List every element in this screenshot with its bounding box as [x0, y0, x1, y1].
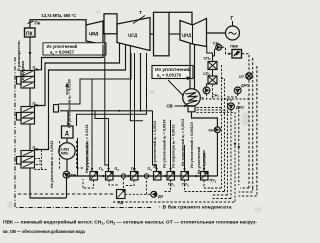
- node: junction circle 2 on condensate line: [144, 174, 148, 178]
- LP cylinder CND double-flow: [180, 19, 207, 47]
- crossover box A between CVD and CSD: [104, 14, 117, 34]
- svg-text:ОВ: ОВ: [167, 104, 173, 109]
- wire: condensate from hotwell to pump KN: [192, 112, 218, 127]
- wire: extraction 2 CSD to heater P6: [35, 43, 120, 107]
- dashed network water line SN2 to PVK to OT: [222, 47, 249, 72]
- wire: seal steam to PU1: [170, 120, 172, 172]
- arrowheads: condensate main line flow: [101, 175, 198, 177]
- svg-text:Из уплотнений: Из уплотнений: [47, 44, 78, 49]
- seals label 0,00179: [152, 66, 193, 79]
- dashed drains network heaters to DNS to condensate: [221, 66, 225, 192]
- label Pe with tick on steam pipe: [28, 21, 34, 24]
- svg-text:ДН: ДН: [158, 195, 164, 199]
- wire: seal steam to PU3: [203, 150, 205, 172]
- vertical text: to blowdown expander: [16, 40, 25, 80]
- heater P7: [17, 71, 35, 89]
- network heater SP1: [208, 76, 217, 84]
- svg-text:13,74 МПа, 565 °С: 13,74 МПа, 565 °С: [42, 13, 77, 18]
- heater P5: [17, 151, 35, 169]
- wire: extraction to P3: [95, 111, 109, 172]
- svg-text:Из уплотнений: Из уплотнений: [86, 142, 90, 170]
- heater P6: [17, 107, 35, 125]
- svg-text:ЦСД: ЦСД: [128, 33, 137, 38]
- seals label box top left: [43, 43, 106, 55]
- svg-text:ДНС: ДНС: [241, 84, 249, 88]
- dash-dot station border left: [15, 57, 152, 208]
- arrowheads: steam inlets to LP heater row: [35, 69, 206, 172]
- svg-text:ДНС: ДНС: [236, 106, 244, 110]
- wire: condensate line to deaerator from LP heaters: [77, 138, 79, 176]
- network pump SN1: [203, 87, 210, 94]
- arrow and vertical text: to seals: [66, 84, 68, 96]
- wire: LP exhaust to condenser: [190, 44, 195, 89]
- dashed return from OT down right side: [249, 58, 257, 188]
- condensate pump KN: [215, 127, 221, 133]
- dashed drains from PU coolers to collector: [163, 180, 211, 191]
- wire: feedwater line from PK down through heaters with blowdown arrow: [29, 37, 31, 70]
- wire: extraction from crossover box A down to P3: [105, 34, 109, 165]
- drain cooler OD: [117, 190, 126, 199]
- svg-text:Из уплотнений ау = 0,0034: Из уплотнений ау = 0,0034: [163, 119, 167, 168]
- heater P4: [90, 172, 98, 181]
- wire: condensate main line through LP heaters: [66, 175, 217, 177]
- svg-text:На уплотнения ау = 0,0043: На уплотнения ау = 0,0043: [50, 141, 54, 188]
- seal cooler PU3: [201, 172, 209, 181]
- svg-text:ОД: ОД: [118, 201, 124, 205]
- heater P1: [154, 172, 162, 181]
- wire: seal line to deaerator head: [77, 53, 147, 126]
- svg-text:Из уплотнений ау = 0,0013: Из уплотнений ау = 0,0013: [153, 121, 157, 168]
- svg-text:ОТ: ОТ: [239, 75, 245, 79]
- wire: LP shaft to generator: [207, 32, 226, 34]
- svg-text:Из аэратора ау = 0,0013: Из аэратора ау = 0,0013: [172, 125, 176, 169]
- node: junction circle on condensate line: [121, 174, 125, 178]
- svg-text:↑ В бак грязного конденсата: ↑ В бак грязного конденсата: [159, 205, 233, 210]
- svg-text:ПК: ПК: [26, 32, 34, 38]
- dashed line OD to DN and up: [125, 178, 151, 194]
- svg-text:Из уплотнений: Из уплотнений: [155, 67, 191, 72]
- boiler PK: [25, 28, 36, 37]
- wire: network water riser: [207, 49, 216, 88]
- wire: LP extraction to network heaters: [207, 47, 213, 77]
- svg-text:Пе: Пе: [35, 21, 41, 26]
- wire: box B mid connector to LP inlet: [169, 33, 180, 35]
- dashed drain line with arrows far right: [238, 102, 240, 185]
- deaerator tank circle 0,583 MPa: [59, 143, 75, 159]
- svg-text:Из уплотнений: Из уплотнений: [197, 146, 201, 174]
- crossover box B between CSD and LP: [154, 12, 170, 56]
- dashed drains under P4 P7 region: [83, 179, 94, 188]
- dash border bottom left: [18, 193, 113, 195]
- network heater SP2: [208, 62, 217, 70]
- wire: seal steam to PU2: [184, 145, 186, 172]
- feed pump PN below deaerator: [66, 159, 68, 171]
- heater P2: [131, 172, 139, 181]
- svg-text:К: К: [202, 96, 205, 101]
- HP cylinder CVD: [86, 21, 103, 45]
- svg-text:Г: Г: [231, 16, 234, 22]
- svg-text:Из уплотнений = 0,00115: Из уплотнений = 0,00115: [190, 122, 194, 168]
- wire: seal steam to condenser with arrow: [152, 78, 189, 80]
- wire: branch down to deaerator: [67, 111, 69, 126]
- condenser K: [183, 89, 201, 107]
- dashed drains from P3 P2 to OD: [109, 178, 134, 189]
- svg-text:Д: Д: [65, 131, 69, 137]
- wire: extraction to P2: [134, 53, 136, 172]
- wire: extraction branch to lower header: [130, 46, 143, 121]
- wire: main steam line boiler to HP cylinder: [30, 20, 86, 28]
- svg-text:ПВК: ПВК: [230, 44, 238, 48]
- wire: extraction 1 CVD bottom to heater P7: [35, 45, 104, 72]
- wire: CVD exhaust to box A: [103, 33, 104, 35]
- wire: header corner down to heater P1: [153, 111, 157, 172]
- svg-text:ПВК — пиковый водогрейный коте: ПВК — пиковый водогрейный котел; СН1, СН…: [3, 220, 258, 226]
- condenser hotwell: [188, 106, 195, 112]
- wire: feedwater between P7 P6 P5 and to lower left: [30, 88, 66, 198]
- heater P3: [106, 172, 114, 181]
- svg-text:Т: Т: [139, 10, 142, 15]
- node: junction on deaerator header: [118, 110, 120, 112]
- seal cooler PU1: [167, 172, 175, 181]
- dashed SN1 suction from return: [207, 85, 250, 100]
- svg-text:ки; ОВ — обессоленная добавочн: ки; ОВ — обессоленная добавочная вода: [3, 229, 86, 234]
- svg-text:МПа: МПа: [61, 152, 68, 156]
- deaerator column D: [62, 126, 74, 138]
- wire: feed pump to feed line: [66, 178, 68, 198]
- seal cooler PU2: [181, 172, 189, 181]
- svg-text:ау = 0,00134: ау = 0,00134: [203, 152, 207, 174]
- IP cylinder CSD: [117, 18, 150, 51]
- wire: extraction 3 CSD to heater P5: [35, 45, 126, 152]
- generator G: [226, 26, 240, 40]
- label T with slanted arrow above CSD: [133, 16, 145, 24]
- svg-text:ЦВД: ЦВД: [89, 31, 98, 36]
- small box M on seal line: [54, 105, 59, 113]
- drain pump DNS lower: [228, 103, 235, 110]
- drain pump DN: [151, 191, 157, 197]
- svg-text:КН: КН: [209, 129, 214, 133]
- svg-text:ЦНД: ЦНД: [182, 33, 191, 38]
- wire: box B top to LP center steam pipe: [169, 12, 192, 25]
- dashed seal lines near deaerator: [59, 141, 61, 170]
- dashed staircase bottom right: [113, 188, 235, 202]
- svg-text:Из уплотнений ау = 0,0013: Из уплотнений ау = 0,0013: [181, 119, 185, 166]
- wire: seal steam header: [59, 53, 132, 104]
- wire: extraction 4 CSD to deaerator header: [60, 53, 153, 111]
- wire: extraction to P4: [91, 79, 93, 172]
- wire: CSD to box B: [150, 33, 154, 35]
- wire: KN pump down to condensate main: [216, 133, 218, 176]
